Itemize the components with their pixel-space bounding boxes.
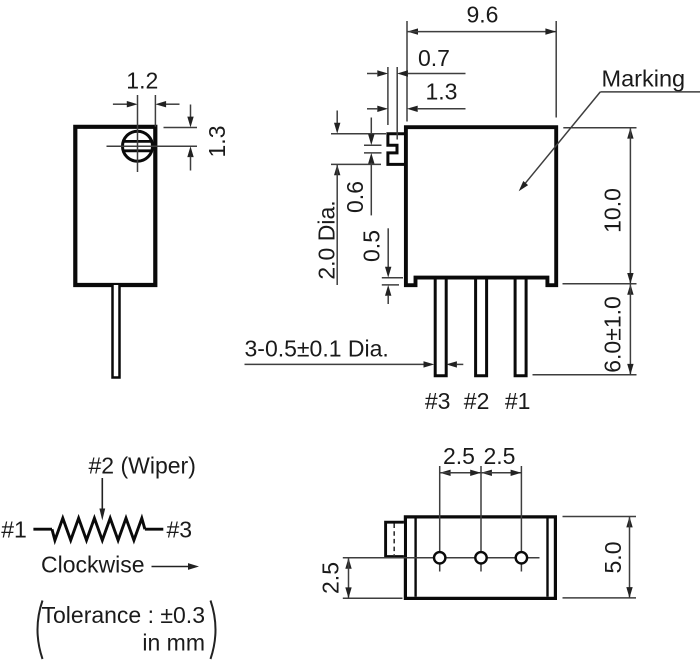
front view body outline (406, 127, 556, 285)
adjust screw circle (123, 131, 153, 161)
front view pin #3 (435, 276, 446, 376)
svg-text:Marking: Marking (602, 65, 686, 91)
marking leader diagonal with arrow (524, 92, 600, 185)
screw vertical center line (137, 95, 139, 172)
dimension 2.0 line and arrows (336, 111, 338, 124)
svg-text:5.0: 5.0 (600, 542, 626, 574)
svg-text:10.0: 10.0 (599, 188, 625, 233)
svg-text:#2: #2 (464, 388, 490, 414)
dimension 1.3 extension line top (164, 127, 198, 129)
svg-text:1.3: 1.3 (204, 126, 230, 158)
hole #3 center line vertical (439, 466, 441, 572)
screw slot lower chord (124, 149, 151, 152)
extension line slot bottom (364, 152, 382, 154)
svg-text:0.7: 0.7 (418, 45, 450, 71)
svg-text:2.5: 2.5 (317, 562, 343, 594)
extension line 0.5 upper (382, 277, 403, 279)
bottom view horizontal center line (343, 557, 540, 559)
dimension 1.2 line and arrows (113, 103, 127, 105)
clockwise arrow (152, 566, 189, 568)
svg-text:in mm: in mm (142, 630, 205, 656)
dimension 0.5 line and arrows (387, 228, 389, 267)
dimension 1.3 line and arrows (side view) (190, 105, 192, 118)
right lead wire (145, 528, 163, 531)
terminal hole #1 (516, 552, 527, 563)
bottom view right inner line (546, 519, 548, 597)
extension line 10.0 top (563, 127, 636, 129)
tolerance right parenthesis (211, 601, 216, 660)
svg-text:#3: #3 (167, 517, 193, 543)
svg-text:#1: #1 (505, 388, 531, 414)
extension line v1 protrusion left edge (387, 67, 389, 125)
svg-text:0.5: 0.5 (359, 230, 385, 262)
extension line slot top (364, 144, 382, 146)
hole #1 center line vertical (520, 466, 522, 572)
dimension 10.0 line and arrows (627, 128, 633, 139)
tolerance left parenthesis (38, 601, 43, 660)
extension line right edge up (154, 95, 156, 127)
front view adjuster protrusion with slot (388, 134, 406, 165)
marking leader underline (600, 91, 700, 93)
extension line 2.0 bottom (331, 163, 381, 165)
svg-text:2.5: 2.5 (484, 443, 516, 469)
side view body outline (75, 127, 155, 285)
extension line v2 slot depth (396, 67, 398, 140)
bottom view body outline (405, 517, 555, 599)
svg-text:#2 (Wiper): #2 (Wiper) (89, 453, 196, 479)
dimension 6.0 line and arrows (627, 284, 633, 295)
svg-text:1.3: 1.3 (426, 79, 458, 105)
svg-text:1.2: 1.2 (126, 68, 158, 94)
extension line pin bottom (533, 374, 637, 376)
extension line 2.5 bottom left (343, 597, 403, 599)
front view pin #2 (476, 276, 487, 376)
svg-text:#3: #3 (425, 388, 451, 414)
dimension 2.5 pitch line and arrows (440, 470, 451, 476)
bottom view left inner line (414, 519, 416, 597)
shared extension line body bottom (563, 283, 637, 285)
svg-text:Tolerance : ±0.3: Tolerance : ±0.3 (42, 602, 206, 628)
svg-text:#1: #1 (1, 517, 27, 543)
dimension 1.3 line and arrows (front view) (367, 108, 377, 110)
side view lead pin (113, 285, 120, 378)
front view pin #1 (515, 276, 526, 376)
svg-text:6.0±1.0: 6.0±1.0 (599, 296, 625, 373)
extension line 5.0 top (563, 516, 637, 518)
hole #2 center line vertical (480, 466, 482, 572)
dimension 0.6 line and arrows (370, 118, 372, 135)
svg-text:3-0.5±0.1 Dia.: 3-0.5±0.1 Dia. (245, 336, 389, 362)
svg-text:9.6: 9.6 (467, 2, 499, 28)
svg-text:2.0 Dia.: 2.0 Dia. (314, 200, 340, 279)
resistor zigzag (52, 518, 145, 540)
wiper arrow (101, 478, 103, 510)
screw horizontal center line (107, 145, 198, 147)
extension line 5.0 bottom (563, 597, 637, 599)
bottom view adjuster protrusion (386, 522, 404, 556)
pin diameter leader line and arrows (245, 363, 424, 365)
extension line 0.5 lower (382, 284, 399, 286)
terminal hole #2 (475, 552, 486, 563)
dimension 0.7 line and arrows (367, 73, 377, 75)
extension line 2.0 top (331, 133, 386, 135)
svg-text:2.5: 2.5 (443, 443, 475, 469)
dimension 9.6 line and arrows (407, 28, 418, 34)
dimension 2.5 line and arrows (bottom view left) (345, 558, 351, 569)
left lead wire (33, 528, 52, 531)
svg-text:Clockwise: Clockwise (41, 552, 145, 578)
dimension 5.0 line and arrows (626, 517, 632, 528)
bottom view protrusion dashed line (393, 524, 395, 557)
svg-text:0.6: 0.6 (342, 181, 368, 213)
extension line v3 body left edge (406, 21, 408, 122)
terminal hole #3 (434, 552, 445, 563)
extension line body right edge (555, 21, 557, 118)
screw slot upper chord (124, 140, 151, 143)
